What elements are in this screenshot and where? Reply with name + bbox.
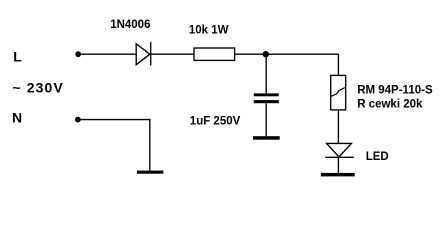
wire capacitor to bottom bar — [265, 103, 267, 136]
svg-text:~ 230V: ~ 230V — [12, 80, 63, 96]
wire resistor to relay branch — [235, 53, 339, 55]
capacitor C1 top plate — [254, 93, 279, 96]
svg-text:1uF 250V: 1uF 250V — [190, 116, 241, 128]
LED bottom terminal bar — [321, 173, 355, 177]
resistor 10k 1W body — [194, 48, 235, 60]
relay diagonal stroke — [331, 88, 345, 97]
wire relay to LED — [337, 110, 339, 143]
svg-text:N: N — [12, 109, 22, 125]
LED cathode bar — [325, 156, 354, 158]
wire N vertical down — [149, 119, 151, 171]
node L terminal dot — [75, 51, 81, 57]
wire L to diode — [78, 53, 136, 55]
diode 1N4006 triangle — [136, 44, 150, 65]
svg-text:RM 94P-110-S: RM 94P-110-S — [357, 84, 433, 96]
svg-text:10k 1W: 10k 1W — [189, 25, 229, 37]
wire LED to bottom bar — [337, 157, 339, 173]
capacitor bottom terminal bar — [253, 136, 280, 140]
svg-text:R cewki 20k: R cewki 20k — [357, 98, 423, 110]
wire N horizontal — [78, 119, 150, 121]
wire diode to resistor — [151, 53, 194, 55]
svg-text:1N4006: 1N4006 — [110, 19, 150, 31]
diode 1N4006 cathode bar — [150, 42, 152, 66]
capacitor C1 bottom plate — [254, 100, 279, 103]
wire junction down to capacitor — [265, 54, 267, 93]
node junction dot — [263, 51, 269, 57]
node N terminal dot — [75, 117, 81, 123]
wire rail down to relay — [337, 54, 339, 76]
relay RM 94P-110-S body — [331, 75, 346, 110]
N bottom terminal bar — [137, 171, 164, 174]
svg-text:LED: LED — [366, 151, 389, 163]
svg-text:L: L — [13, 49, 22, 65]
LED triangle — [327, 143, 352, 157]
